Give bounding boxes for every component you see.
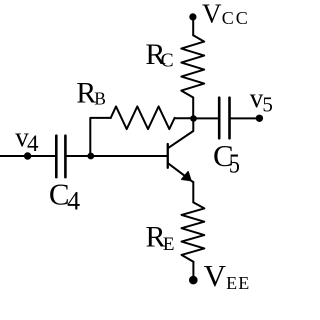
wire RB to collector node — [175, 117, 194, 119]
svg-text:C: C — [161, 51, 174, 72]
wire collector node to C5 — [194, 117, 219, 119]
transistor Q1 base bar — [167, 144, 169, 168]
svg-text:5: 5 — [262, 92, 273, 116]
transistor Q1 emitter with arrow — [168, 163, 193, 182]
svg-text:5: 5 — [229, 148, 240, 178]
wire C5 to v5 — [231, 117, 260, 119]
node v5 terminal dot — [256, 115, 263, 122]
capacitor C5 — [218, 98, 221, 139]
node base junction — [87, 153, 94, 160]
wire VCC to RC — [192, 19, 194, 35]
wire base node up to RB — [90, 118, 110, 156]
svg-text:V: V — [204, 258, 227, 293]
wire RC to collector node — [192, 98, 194, 119]
node collector junction — [190, 115, 197, 122]
svg-text:E: E — [163, 234, 175, 255]
wire input to C4 — [0, 155, 55, 157]
wire emitter to RE — [192, 182, 194, 203]
svg-text:V: V — [202, 0, 222, 29]
node VCC terminal dot — [189, 13, 196, 20]
svg-text:B: B — [94, 89, 106, 109]
resistor RE — [182, 202, 205, 261]
resistor RC — [181, 35, 204, 97]
svg-text:4: 4 — [27, 131, 39, 156]
wire C4 to base — [66, 155, 167, 157]
svg-text:EE: EE — [226, 273, 250, 293]
node VEE terminal dot — [189, 276, 198, 285]
capacitor C4 — [55, 136, 58, 177]
svg-text:CC: CC — [222, 8, 250, 28]
svg-text:4: 4 — [67, 186, 80, 215]
wire RE to VEE — [192, 262, 194, 278]
node v4 terminal dot — [24, 152, 31, 159]
resistor RB — [111, 106, 175, 129]
wire collector node to transistor — [168, 119, 193, 149]
